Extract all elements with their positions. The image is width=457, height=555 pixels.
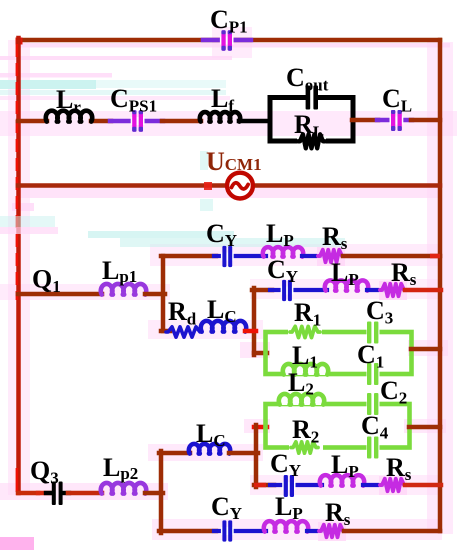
inductor L_P row4 [264,492,308,532]
wire Q3 mid [68,491,102,496]
wire C_L to right [411,118,440,123]
wire C_PS1 to L_f [162,119,201,124]
inductor L_p1 [101,256,146,295]
inductor L_p2 [101,453,146,494]
wire box to C_L [352,118,378,123]
inductor L_C [201,295,246,332]
capacitor C_Y row3 [270,449,322,497]
capacitor C_4 [361,411,389,459]
capacitor C_P1 [203,5,251,51]
capacitor C_L [377,84,412,131]
wire row2 left stub [252,288,272,293]
wire Lp1 to vertical [145,292,165,297]
node box2 vertical [254,425,259,487]
node Q3 vertical [159,451,164,533]
wire Q3 row left [18,491,38,496]
wire Q1 row [18,292,102,297]
wire Lp2 to vertical [145,491,163,496]
resonant box1 outline [266,332,412,374]
resonant box2 outline [266,404,410,448]
inductor L_r [46,85,92,122]
wire left vertical [16,38,21,493]
wire Rd row stub [161,329,170,334]
source U_CM1 [200,147,262,211]
resistor R_s row3 [379,453,412,495]
wire row2 mid [367,288,383,292]
wire Lc2 right [229,451,258,456]
wire row1 mid [302,254,320,258]
wire row2 right [405,288,441,293]
wire row3 right [405,483,441,488]
resistor R_1 [288,298,322,338]
node row1 corner [161,256,166,331]
wire Lc to vertical [245,329,256,334]
wire L_r row [18,119,47,124]
wire row1 right [343,254,440,259]
resistor R_s row2 [379,258,417,300]
wire row4 mid [307,529,322,533]
resistor R_L [294,110,326,148]
wire U_CM1 row [18,183,440,188]
wire Lc2 left stub [159,451,190,456]
resistor R_s row1 [317,222,348,266]
load box outline [270,98,353,142]
wire L_f to load box [239,119,269,124]
inductor L_P row2 [325,258,368,291]
wire box1 left feed [254,351,267,356]
capacitor C_2 [367,376,408,415]
inductor L_2 [279,368,325,405]
capacitor C_Y row2 [267,255,327,301]
wire row1 left [161,254,216,259]
capacitor C_1 [357,340,384,385]
inductor L_1 [283,341,329,375]
inductor L_P row3 [320,450,364,486]
capacitor C_Y row1 [206,219,266,267]
wire box1 right feed [411,347,440,352]
capacitor C_Y row4 [211,492,266,542]
resistor R_s row4 [318,498,351,541]
resistor R_d [166,297,202,337]
capacitor C_out [286,63,329,110]
wire top [18,38,440,43]
capacitor C_PS1 [110,84,163,132]
inductor L_P row1 [263,219,303,257]
wire right vertical [438,40,443,531]
capacitor Q3 blocking [38,482,69,506]
inductor L_f [200,84,240,122]
wire row3 mid [363,483,383,487]
node row2 vertical [252,288,257,355]
wire row1 end highlight [430,254,440,259]
capacitor C_3 [366,296,393,344]
inductor L_C lower [189,419,230,454]
wire row4 left [159,529,216,534]
wire box2 right feed [409,425,440,430]
node top-left corner [16,38,23,45]
wire box2 left feed [254,425,267,430]
wire row4 right [344,529,440,534]
resistor R_2 [289,415,323,453]
wire row3 left stub [254,483,274,488]
